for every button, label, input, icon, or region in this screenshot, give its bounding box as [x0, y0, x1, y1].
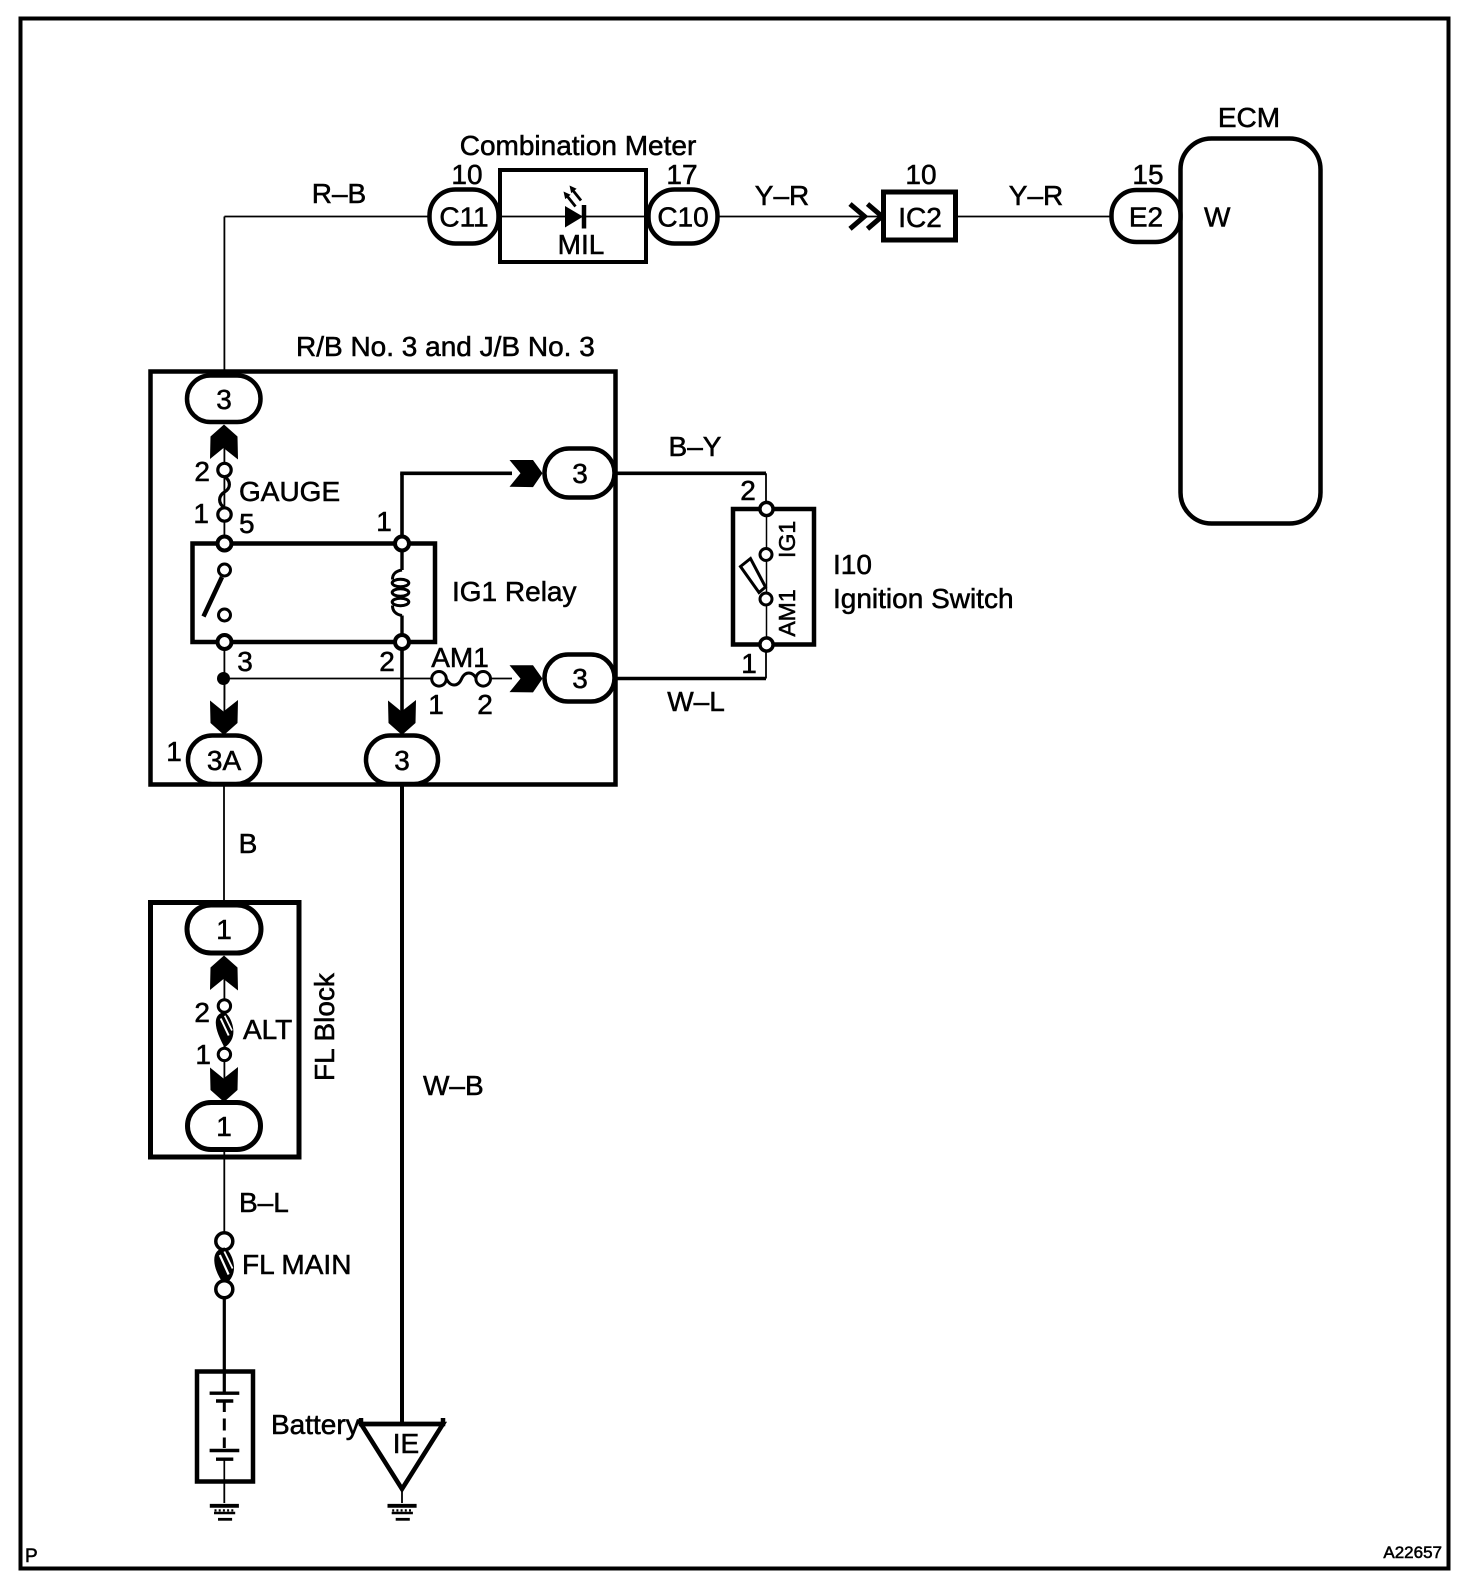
FL MAIN fusible link element: [214, 1248, 234, 1286]
IG1 relay box: [193, 544, 436, 643]
FL block box: [151, 903, 300, 1158]
svg-text:Combination Meter: Combination Meter: [460, 130, 697, 161]
gauge fuse terminal 1 circle: [218, 508, 231, 521]
ALT fusible link element: [216, 1012, 234, 1048]
svg-text:P: P: [25, 1546, 38, 1567]
svg-text:3: 3: [216, 384, 232, 415]
wire ignition pin1 down: [765, 651, 767, 679]
battery box: [197, 1372, 253, 1482]
ALT terminal 2 circle: [218, 1000, 230, 1012]
connector E2: [1112, 190, 1181, 242]
arrow down into connector 3A: [210, 700, 238, 735]
arrow up inside FL block: [210, 956, 238, 991]
svg-text:W–L: W–L: [667, 686, 725, 717]
combination meter box: [500, 170, 646, 262]
svg-text:3: 3: [572, 663, 588, 694]
junction dot node: [217, 672, 230, 685]
connector 3 right lower: [545, 655, 615, 702]
wire W-L back to R/B: [614, 677, 766, 681]
svg-text:R–B: R–B: [312, 178, 366, 209]
svg-text:Battery: Battery: [271, 1409, 360, 1440]
wire R-B vertical drop: [223, 217, 225, 378]
wire W-B vertical: [400, 784, 404, 1425]
ignition AM1 contact circle: [760, 593, 772, 605]
svg-text:5: 5: [239, 508, 255, 539]
wire battery to ground: [223, 1481, 225, 1503]
svg-text:B: B: [239, 828, 258, 859]
wire pin2 down: [400, 649, 404, 712]
svg-text:1: 1: [428, 689, 444, 720]
ECM box: [1181, 139, 1321, 524]
battery internals: [210, 1393, 240, 1481]
ignition axis wire: [766, 509, 768, 644]
svg-text:2: 2: [477, 689, 493, 720]
connector C11: [430, 190, 499, 244]
svg-text:IE: IE: [393, 1428, 419, 1459]
svg-text:1: 1: [195, 1039, 211, 1070]
connector IC2: [884, 192, 956, 240]
svg-text:W–B: W–B: [423, 1070, 484, 1101]
svg-text:3A: 3A: [207, 745, 242, 776]
svg-text:1: 1: [741, 648, 757, 679]
relay pin 2 circle: [395, 635, 409, 649]
svg-text:R/B No. 3 and J/B No. 3: R/B No. 3 and J/B No. 3: [296, 331, 595, 362]
svg-text:2: 2: [194, 456, 210, 487]
wire 3A down to FL block: [223, 784, 225, 906]
wire C10 to IC2: [718, 216, 882, 218]
svg-text:2: 2: [379, 646, 395, 677]
ground symbol battery: [210, 1506, 239, 1520]
svg-text:10: 10: [905, 159, 936, 190]
ignition switch blade: [741, 559, 766, 593]
wire through meter: [499, 216, 683, 218]
svg-text:1: 1: [193, 498, 209, 529]
svg-text:1: 1: [216, 914, 232, 945]
svg-text:1: 1: [216, 1111, 232, 1142]
svg-text:A22657: A22657: [1383, 1543, 1442, 1562]
connector 3 right upper: [545, 449, 615, 498]
arrow up into connector 3: [210, 425, 238, 460]
wire B-Y to ignition switch: [614, 471, 766, 475]
svg-text:B–L: B–L: [239, 1187, 289, 1218]
ignition IG1 contact circle: [760, 549, 772, 561]
ground symbol IE: [388, 1506, 417, 1520]
svg-text:I10: I10: [833, 549, 872, 580]
wire gauge fuse vertical: [223, 440, 225, 545]
svg-text:ALT: ALT: [243, 1014, 292, 1045]
wire ALT fuse vertical: [223, 970, 225, 1102]
wire pin3 to junction: [223, 649, 225, 712]
svg-text:IG1: IG1: [774, 521, 800, 558]
svg-text:15: 15: [1132, 159, 1163, 190]
connector C10: [649, 190, 718, 244]
svg-text:1: 1: [166, 736, 182, 767]
svg-text:2: 2: [194, 997, 210, 1028]
relay switch blade: [204, 577, 223, 617]
relay pin 1 circle: [395, 537, 409, 551]
svg-text:E2: E2: [1129, 202, 1163, 233]
ignition pin 1 circle: [760, 638, 773, 651]
wire FL MAIN to battery: [223, 1298, 226, 1392]
wire junction down: [223, 679, 225, 701]
relay pin 3 circle: [218, 635, 232, 649]
svg-text:C10: C10: [657, 202, 708, 233]
ignition pin 2 circle: [760, 502, 773, 515]
splice chevron 1: [850, 204, 865, 229]
connector 1 top of FL block: [187, 905, 261, 953]
svg-text:B–Y: B–Y: [669, 431, 722, 462]
svg-text:3: 3: [237, 646, 253, 677]
relay pin 5 circle: [218, 537, 232, 551]
MIL lamp LED: [564, 186, 585, 229]
svg-text:GAUGE: GAUGE: [239, 476, 340, 507]
svg-text:IC2: IC2: [898, 202, 942, 233]
arrow down into connector 3 bottom: [388, 700, 416, 735]
svg-text:W: W: [1204, 202, 1231, 233]
wire junction to AM1 fuse: [224, 678, 432, 680]
svg-text:MIL: MIL: [558, 229, 605, 260]
arrow down inside FL block: [210, 1067, 238, 1102]
svg-text:AM1: AM1: [431, 642, 489, 673]
svg-text:Y–R: Y–R: [1009, 180, 1063, 211]
connector 3 top of R/B: [187, 376, 261, 423]
wire IE to ground: [401, 1489, 403, 1503]
connector 3A: [188, 736, 260, 785]
relay contact lower circle: [219, 609, 231, 621]
AM1 fuse terminal 1 circle: [432, 672, 447, 687]
wire relay pin1 up: [400, 473, 404, 537]
wire IC2 to E2: [956, 216, 1112, 218]
wire R-B horizontal: [224, 216, 430, 218]
svg-text:FL MAIN: FL MAIN: [242, 1249, 351, 1280]
svg-text:1: 1: [376, 506, 392, 537]
wire FL block down: [223, 1150, 225, 1233]
svg-text:FL Block: FL Block: [309, 972, 340, 1081]
svg-text:3: 3: [394, 745, 410, 776]
svg-text:17: 17: [666, 159, 697, 190]
svg-text:10: 10: [451, 159, 482, 190]
AM1 fuse terminal 2 circle: [476, 672, 491, 687]
GAUGE fuse element: [220, 477, 230, 508]
svg-text:AM1: AM1: [774, 589, 800, 636]
svg-text:IG1 Relay: IG1 Relay: [452, 576, 577, 607]
FL MAIN terminal bottom circle: [216, 1281, 233, 1298]
wire AM1 to arrow: [490, 678, 512, 680]
AM1 fuse element: [447, 673, 477, 685]
svg-text:2: 2: [740, 475, 756, 506]
FL MAIN terminal top circle: [216, 1233, 233, 1250]
relay contact upper circle: [219, 564, 231, 576]
arrow right into connector 3 (W-L): [510, 665, 543, 692]
svg-text:3: 3: [572, 458, 588, 489]
IE ground triangle: [361, 1418, 443, 1489]
svg-text:C11: C11: [439, 202, 488, 233]
arrow right into connector 3 (B-Y): [510, 460, 543, 487]
splice chevron 2: [868, 204, 883, 229]
connector 3 bottom of R/B: [366, 736, 438, 785]
ignition switch box: [733, 509, 814, 645]
gauge fuse terminal 2 circle: [218, 463, 231, 476]
ALT terminal 1 circle: [218, 1048, 230, 1060]
wire to B-Y arrow: [400, 471, 512, 475]
connector 1 bottom of FL block: [188, 1103, 261, 1150]
svg-text:ECM: ECM: [1218, 102, 1280, 133]
relay coil: [392, 550, 409, 636]
R/B J/B junction block box: [151, 372, 616, 785]
svg-text:Ignition Switch: Ignition Switch: [833, 583, 1014, 614]
svg-text:Y–R: Y–R: [755, 180, 809, 211]
